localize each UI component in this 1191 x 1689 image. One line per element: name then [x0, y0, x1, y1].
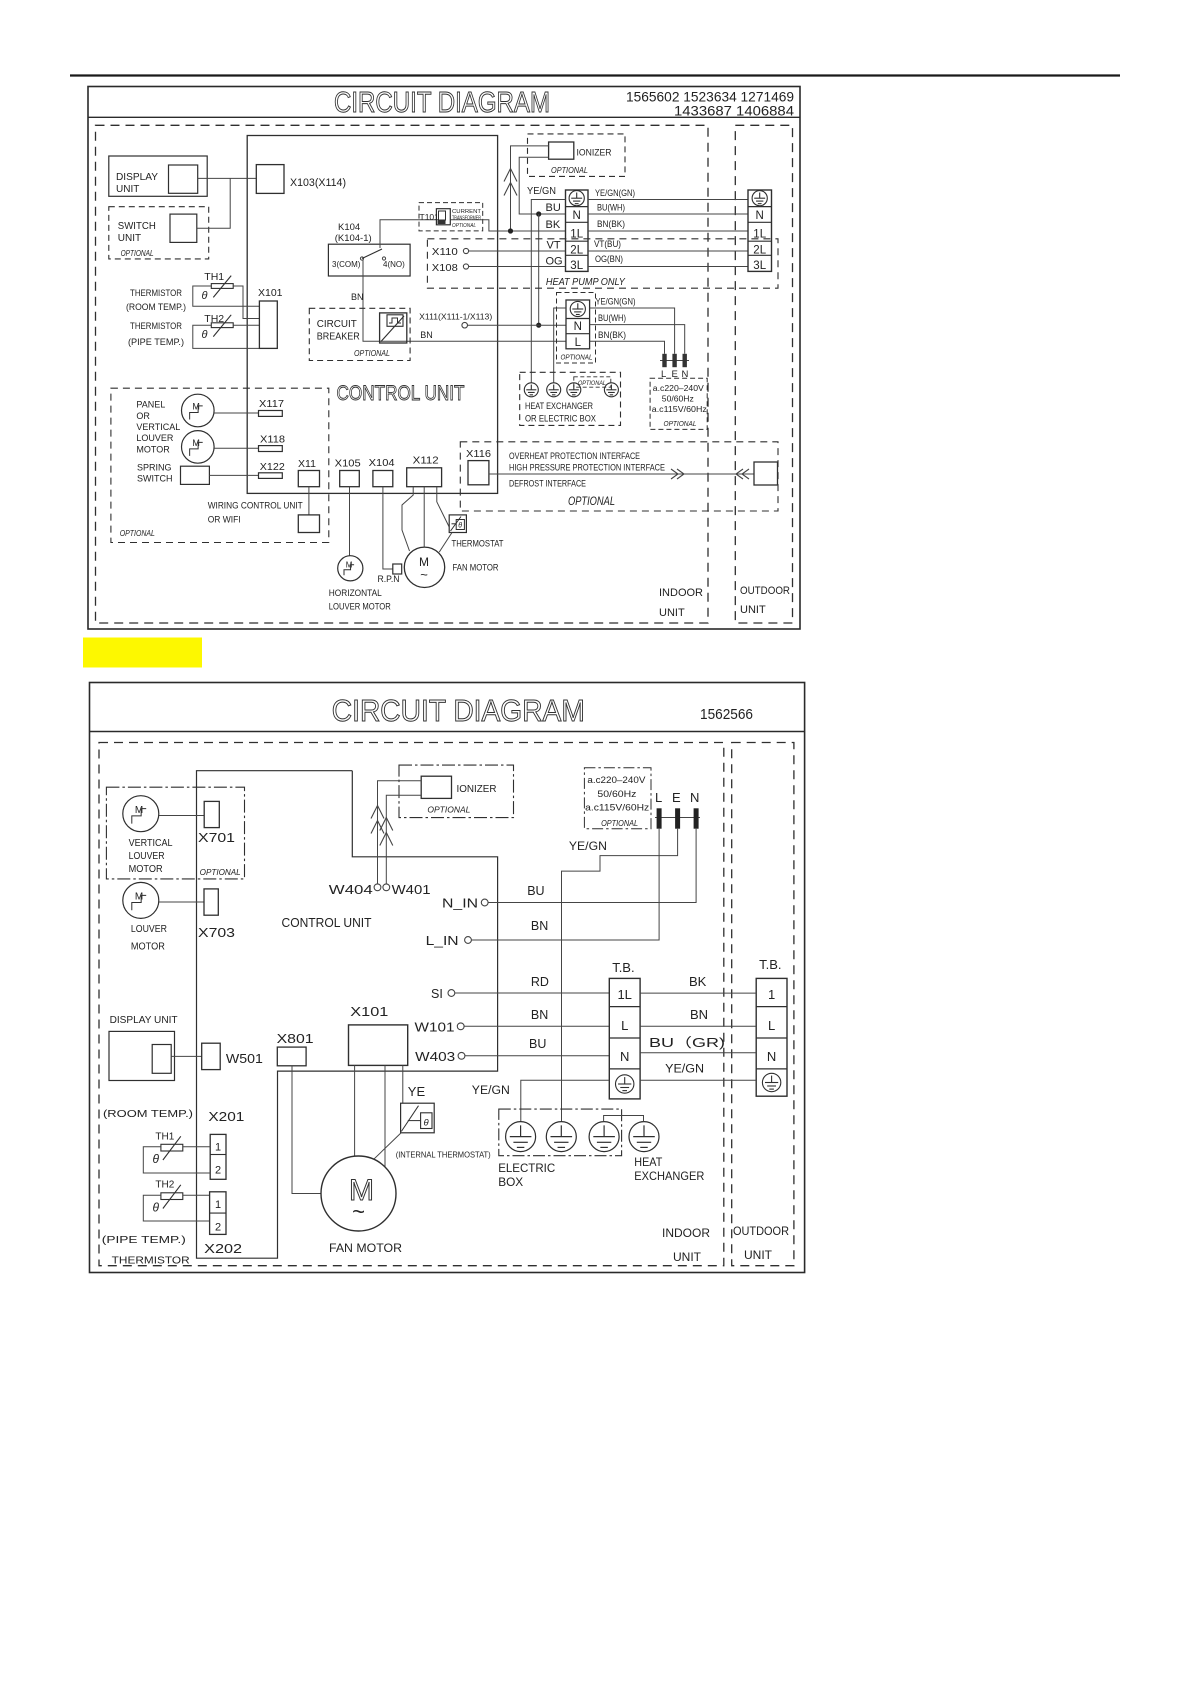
svg-text:CIRCUIT DIAGRAM: CIRCUIT DIAGRAM: [332, 694, 585, 728]
LEN cross line (d2): [655, 817, 700, 819]
svg-text:X104: X104: [369, 457, 395, 469]
R.P.N square: [393, 564, 402, 574]
fan motor circle (d2): [321, 1156, 396, 1231]
svg-text:HEAT PUMP ONLY: HEAT PUMP ONLY: [546, 277, 626, 288]
svg-text:1: 1: [768, 987, 775, 1002]
terminal L (d2): [657, 808, 662, 828]
TH2 loop wiring: [233, 324, 259, 326]
svg-text:OPTIONAL: OPTIONAL: [452, 223, 476, 229]
connector X116: [468, 461, 489, 485]
chevrons W401: [380, 818, 393, 831]
X108 terminal circle: [463, 264, 468, 269]
wire W401 to ionizer: [386, 795, 421, 884]
TH2 wiring (d2): [143, 1195, 209, 1221]
svg-text:K104: K104: [338, 222, 360, 233]
svg-text:BU（GR): BU（GR): [649, 1035, 725, 1050]
wire ionizer upper to BK net: [511, 146, 549, 231]
chevrons left (interface wire): [736, 469, 749, 479]
svg-text:SWITCH: SWITCH: [137, 473, 173, 483]
power supply dashed box (d1): [650, 378, 707, 429]
svg-text:IONIZER: IONIZER: [457, 783, 497, 795]
wire BK TB to TB: [640, 992, 756, 994]
wire X108 to 3L: [469, 266, 566, 268]
connector X112: [407, 468, 442, 487]
svg-text:2: 2: [215, 1165, 221, 1177]
svg-text:HORIZONTAL: HORIZONTAL: [329, 588, 382, 599]
svg-text:INDOOR: INDOOR: [662, 1226, 710, 1240]
connector X11: [298, 471, 319, 487]
svg-text:OG(BN): OG(BN): [595, 254, 623, 264]
wire BU(GR) TB to TB: [640, 1052, 756, 1054]
control unit outline (d2): [197, 771, 498, 1258]
svg-text:4(NO): 4(NO): [383, 260, 405, 269]
wire display to W501: [171, 1055, 202, 1057]
svg-text:BN(BK): BN(BK): [597, 219, 625, 229]
svg-text:YE: YE: [408, 1084, 426, 1099]
svg-text:OPTIONAL: OPTIONAL: [664, 419, 697, 428]
circuit breaker dashed box: [309, 308, 410, 360]
svg-text:OPTIONAL: OPTIONAL: [121, 249, 154, 258]
wire W404 to ionizer: [378, 781, 422, 884]
wire thermostat to fan motor (d2): [374, 1133, 401, 1159]
wire K104 pin3 to breaker net BN: [363, 260, 566, 341]
svg-text:BU: BU: [529, 1037, 546, 1051]
svg-text:CURRENT: CURRENT: [452, 209, 482, 215]
ground symbol g1 (d2): [506, 1122, 536, 1152]
wire SI to TB 1L: [455, 992, 610, 994]
wire BU tap down to X111 net: [538, 214, 540, 325]
terminal N (d1): [683, 354, 687, 367]
wire spring switch to X122: [209, 474, 258, 476]
junction dot BK/ionizer: [508, 228, 513, 233]
svg-text:MOTOR: MOTOR: [136, 444, 170, 454]
svg-text:OR ELECTRIC BOX: OR ELECTRIC BOX: [525, 414, 597, 425]
svg-text:N: N: [573, 210, 581, 222]
wire K104 to T101: [380, 220, 436, 248]
wire switch unit to X103 net: [197, 178, 230, 228]
indoor unit dashed boundary (d1): [96, 125, 709, 623]
svg-text:N: N: [574, 321, 582, 333]
wire OG(BN) indoor to outdoor: [588, 266, 748, 268]
svg-text:X101: X101: [350, 1004, 388, 1019]
svg-text:N: N: [756, 210, 764, 222]
svg-text:T.B.: T.B.: [612, 960, 634, 975]
wire motor1 to X117: [214, 412, 258, 414]
diagram 1 outer border: [88, 87, 800, 630]
svg-text:CIRCUIT: CIRCUIT: [317, 319, 357, 330]
svg-text:OR: OR: [136, 411, 150, 421]
outdoor unit dashed boundary (d2): [732, 743, 794, 1266]
svg-text:BREAKER: BREAKER: [317, 332, 360, 343]
TH1 wiring (d2): [143, 1147, 210, 1173]
svg-text:BU: BU: [546, 202, 561, 214]
spring switch box: [181, 466, 210, 484]
svg-text:VT: VT: [547, 240, 561, 252]
svg-text:L: L: [655, 790, 662, 805]
svg-text:YE/GN: YE/GN: [569, 839, 607, 853]
diagram 2 title separator: [90, 731, 805, 733]
svg-text:EXCHANGER: EXCHANGER: [634, 1169, 704, 1183]
svg-text:MOTOR: MOTOR: [131, 941, 165, 953]
panel motor 2: [182, 431, 215, 464]
connector W501: [202, 1043, 221, 1069]
horizontal louver motor: [338, 556, 363, 581]
svg-text:DEFROST INTERFACE: DEFROST INTERFACE: [509, 479, 586, 489]
connector X703: [204, 889, 218, 915]
wire L terminal to L_IN: [472, 829, 660, 940]
svg-text:OPTIONAL: OPTIONAL: [551, 166, 588, 175]
terminal E (d1): [672, 354, 676, 367]
connector X101 (d2): [349, 1025, 408, 1066]
svg-text:(ROOM TEMP.): (ROOM TEMP.): [103, 1108, 193, 1120]
svg-text:1565602 1523634 1271469: 1565602 1523634 1271469: [626, 90, 794, 105]
svg-text:M: M: [192, 402, 200, 412]
svg-text:UNIT: UNIT: [659, 607, 685, 619]
svg-text:X703: X703: [198, 926, 235, 940]
svg-text:OPTIONAL: OPTIONAL: [354, 349, 390, 358]
svg-text:X108: X108: [432, 262, 458, 274]
electric box dash-dot border: [499, 1109, 622, 1156]
svg-text:TH1: TH1: [204, 271, 224, 283]
diagram 2 outer border: [90, 683, 805, 1273]
svg-text:1: 1: [215, 1142, 221, 1154]
W101 terminal circle: [457, 1023, 464, 1030]
svg-text:THERMOSTAT: THERMOSTAT: [452, 539, 504, 550]
svg-text:CONTROL UNIT: CONTROL UNIT: [337, 382, 465, 405]
svg-text:W101: W101: [415, 1021, 455, 1035]
display unit connector (d2): [152, 1045, 171, 1074]
wire W403 to TB N: [465, 1055, 609, 1057]
svg-text:2: 2: [215, 1222, 221, 1234]
svg-text:FAN MOTOR: FAN MOTOR: [453, 563, 499, 574]
svg-text:MOTOR: MOTOR: [129, 863, 163, 875]
junction dot BU tap: [536, 211, 541, 216]
svg-text:INDOOR: INDOOR: [659, 587, 703, 599]
svg-text:N: N: [620, 1049, 629, 1064]
thermistor TH1 (d2): [161, 1136, 183, 1160]
K104 pin 3 contact: [360, 257, 363, 260]
svg-text:VERTICAL: VERTICAL: [136, 422, 180, 432]
outdoor terminal block T.B.: [756, 978, 787, 1096]
svg-text:θ: θ: [202, 290, 208, 302]
svg-text:IONIZER: IONIZER: [577, 148, 612, 159]
svg-text:W401: W401: [392, 883, 431, 897]
svg-text:a.c220–240V: a.c220–240V: [653, 384, 705, 393]
K104 pin 4 contact: [382, 257, 385, 260]
svg-text:T.B.: T.B.: [759, 957, 781, 972]
wire optional L to L terminal: [590, 341, 665, 354]
wire display unit to X103: [198, 177, 257, 179]
svg-text:UNIT: UNIT: [118, 233, 141, 244]
wire X11 to wifi connector: [308, 487, 310, 515]
svg-text:HEAT EXCHANGER: HEAT EXCHANGER: [525, 401, 593, 412]
svg-text:L_IN: L_IN: [426, 934, 459, 948]
svg-text:BOX: BOX: [498, 1175, 523, 1189]
wifi connector box: [298, 515, 319, 533]
wire X105 to horizontal louver motor: [349, 487, 351, 556]
W401 terminal circle: [383, 884, 390, 891]
switch unit connector: [170, 214, 197, 242]
chevrons W404: [371, 806, 384, 819]
panel motor 1: [182, 394, 215, 427]
ground symbol g3 (d1): [567, 383, 581, 397]
wire X116 to outdoor box: [489, 473, 754, 475]
svg-text:(K104-1): (K104-1): [335, 233, 372, 244]
power supply dash-dot box (d2): [584, 768, 651, 829]
terminal E (d2): [675, 808, 680, 828]
svg-text:N: N: [767, 1049, 776, 1064]
ground symbol g2 (d2): [546, 1122, 576, 1152]
ground symbol g1 (d1): [524, 383, 538, 397]
svg-text:3(COM): 3(COM): [332, 260, 361, 269]
svg-text:BK: BK: [689, 974, 707, 989]
svg-text:YE/GN(GN): YE/GN(GN): [596, 297, 636, 307]
wire X112 to thermostat: [437, 487, 449, 527]
svg-text:THERMISTOR: THERMISTOR: [112, 1255, 190, 1267]
svg-text:θ: θ: [202, 329, 208, 341]
wire X801 to fan motor: [292, 1066, 321, 1194]
svg-text:BN: BN: [351, 292, 364, 302]
svg-text:OPTIONAL: OPTIONAL: [200, 868, 241, 877]
outdoor interface box: [754, 462, 778, 485]
svg-text:X122: X122: [260, 461, 285, 473]
svg-text:X801: X801: [277, 1032, 314, 1046]
wire N terminal to N_IN: [488, 829, 696, 903]
svg-text:OG: OG: [546, 256, 563, 268]
X110 terminal circle: [463, 248, 468, 253]
panel optional dashed box: [111, 388, 329, 542]
interface dashed box (d1): [460, 442, 778, 511]
svg-text:X202: X202: [204, 1241, 242, 1256]
svg-text:X103(X114): X103(X114): [290, 177, 346, 189]
thermistor TH1: [211, 276, 233, 298]
connector X701: [204, 801, 219, 827]
control unit box (d1): [247, 136, 497, 494]
svg-text:X701: X701: [198, 831, 235, 845]
svg-text:UNIT: UNIT: [740, 604, 766, 616]
svg-text:1433687 1406884: 1433687 1406884: [674, 104, 795, 119]
switch unit dashed box: [109, 207, 209, 259]
svg-text:X111(X111-1/X113): X111(X111-1/X113): [419, 312, 492, 322]
earth terminal symbol (indoor strip d1): [569, 191, 584, 206]
svg-text:DISPLAY: DISPLAY: [116, 172, 158, 183]
svg-text:2L: 2L: [570, 245, 583, 257]
svg-text:BU(WH): BU(WH): [598, 313, 626, 323]
terminal L (d1): [662, 354, 666, 367]
svg-text:YE/GN: YE/GN: [665, 1064, 704, 1076]
svg-text:(ROOM TEMP.): (ROOM TEMP.): [126, 302, 186, 313]
svg-text:BN: BN: [690, 1007, 708, 1022]
svg-text:OUTDOOR: OUTDOOR: [733, 1224, 789, 1238]
svg-text:3L: 3L: [753, 260, 766, 272]
svg-text:θ: θ: [153, 1201, 160, 1215]
connector X122: [259, 473, 283, 479]
wire E terminal to ground g2 (d2): [562, 829, 678, 1122]
wire X112 to fan motor top: [423, 487, 425, 547]
svg-text:1562566: 1562566: [700, 706, 753, 723]
svg-text:BK: BK: [546, 219, 561, 231]
T101 component box: [436, 209, 450, 225]
svg-text:N_IN: N_IN: [442, 897, 478, 911]
X111 terminal circle: [462, 322, 468, 328]
arrow chevrons on ionizer wire: [504, 169, 517, 182]
svg-text:TH1: TH1: [155, 1132, 174, 1143]
heat pump only dashed box: [427, 239, 778, 288]
svg-text:BN(BK): BN(BK): [598, 330, 626, 340]
svg-text:L: L: [621, 1018, 628, 1033]
connector X104: [373, 471, 393, 487]
TH1 loop wiring: [193, 286, 260, 306]
optional N/L terminal strip: [566, 300, 590, 349]
earth symbol (indoor TB): [616, 1075, 634, 1093]
earth terminal symbol (outdoor strip d1): [752, 191, 767, 206]
fan motor circle (d1): [404, 547, 444, 587]
ionizer dash-dot box (d2): [399, 765, 514, 818]
wire X112 to fan motor left: [402, 487, 413, 551]
svg-text:2L: 2L: [753, 245, 766, 257]
svg-text:X117: X117: [259, 398, 284, 410]
svg-text:~: ~: [352, 1199, 365, 1224]
SI terminal circle: [448, 990, 455, 997]
svg-text:BN: BN: [420, 330, 433, 340]
svg-text:TRANSFORMER: TRANSFORMER: [452, 216, 481, 222]
svg-text:OPTIONAL: OPTIONAL: [120, 529, 155, 538]
terminal N (d2): [694, 808, 699, 828]
outdoor terminal strip (d1): [748, 190, 772, 271]
current transformer T101 dashed box: [419, 203, 483, 231]
display unit box: [109, 156, 207, 196]
svg-text:UNIT: UNIT: [116, 184, 139, 195]
wire optional earth left to g2: [554, 308, 566, 383]
wire T101 to 1L net: [450, 220, 565, 231]
LEN cross line (d1): [660, 360, 689, 362]
svg-text:W501: W501: [226, 1052, 263, 1066]
thermistor TH2 (d2): [161, 1185, 183, 1209]
earth symbol (outdoor TB): [762, 1073, 780, 1091]
svg-text:E: E: [672, 790, 681, 805]
indoor terminal block T.B.: [609, 978, 640, 1099]
svg-text:X110: X110: [432, 246, 458, 258]
wire X104 to RPN: [383, 487, 393, 569]
svg-text:N: N: [690, 790, 699, 805]
wire X101 pin2 to fan motor: [384, 1065, 386, 1167]
outdoor unit dashed boundary (d1): [735, 125, 792, 623]
page top rule: [70, 74, 1120, 76]
svg-text:CONTROL UNIT: CONTROL UNIT: [282, 916, 372, 930]
svg-text:OPTIONAL: OPTIONAL: [427, 805, 470, 815]
earth symbol (optional strip): [570, 301, 585, 316]
svg-text:θ: θ: [458, 523, 462, 530]
connector X101 (d1): [259, 301, 277, 348]
wire thermostat to fan motor: [439, 533, 452, 553]
svg-text:1: 1: [215, 1199, 221, 1211]
svg-text:BU: BU: [527, 884, 544, 898]
svg-text:W403: W403: [415, 1050, 455, 1064]
svg-text:OPTIONAL: OPTIONAL: [568, 496, 615, 508]
svg-text:LOUVER: LOUVER: [129, 850, 165, 862]
wire W101 to TB L: [464, 1025, 609, 1027]
optional strip dashed box (d1): [557, 293, 596, 364]
wire TB earth to ground g1 (d2): [521, 1080, 610, 1122]
wire X110 to 2L: [469, 250, 566, 252]
svg-text:OPTIONAL: OPTIONAL: [578, 380, 606, 387]
wire YE/GN(GN) indoor to outdoor: [588, 199, 748, 201]
svg-text:a.c220–240V: a.c220–240V: [587, 775, 645, 785]
svg-text:1L: 1L: [617, 987, 631, 1002]
svg-text:HIGH PRESSURE PROTECTION IN: HIGH PRESSURE PROTECTION INTERFACE: [509, 463, 665, 473]
svg-text:50/60Hz: 50/60Hz: [662, 395, 694, 404]
svg-text:VERTICAL: VERTICAL: [129, 837, 173, 849]
svg-text:DISPLAY UNIT: DISPLAY UNIT: [110, 1014, 179, 1026]
display unit connector: [169, 165, 198, 193]
L_IN terminal circle: [465, 937, 472, 944]
connector X103(X114): [256, 165, 284, 194]
svg-text:YE/GN: YE/GN: [527, 186, 556, 197]
svg-text:X11: X11: [298, 458, 316, 470]
bracket g3-g4: [604, 1116, 644, 1122]
K104 switch blade: [362, 249, 382, 259]
connector X801: [277, 1047, 306, 1066]
indoor unit dashed boundary (d2): [99, 743, 724, 1266]
svg-text:M: M: [192, 438, 200, 448]
connector X117: [259, 411, 283, 417]
wire X101 pin1 to fan motor: [354, 1065, 356, 1156]
svg-text:HEAT: HEAT: [634, 1155, 663, 1169]
W404 terminal circle: [374, 884, 381, 891]
svg-text:OUTDOOR: OUTDOOR: [740, 585, 790, 597]
svg-text:THERMISTOR: THERMISTOR: [130, 321, 182, 332]
svg-text:X116: X116: [466, 448, 491, 460]
svg-text:1L: 1L: [753, 229, 766, 241]
svg-text:LOUVER: LOUVER: [136, 433, 174, 443]
internal thermostat box: [401, 1103, 435, 1133]
vertical louver optional dash-dot box: [106, 787, 244, 879]
svg-text:M: M: [135, 805, 143, 816]
heat exchanger dashed box (d1): [520, 372, 621, 425]
svg-text:SWITCH: SWITCH: [118, 221, 156, 232]
wire YE/GN TB to TB: [640, 1079, 756, 1081]
svg-text:a.c115V/60Hz: a.c115V/60Hz: [585, 803, 650, 813]
svg-text:SI: SI: [431, 987, 443, 1001]
ground symbol g4 (d1): [604, 383, 618, 397]
svg-text:~: ~: [420, 567, 428, 582]
svg-text:ELECTRIC: ELECTRIC: [498, 1161, 555, 1175]
wire optional N to N terminal: [590, 325, 685, 354]
svg-text:UNIT: UNIT: [673, 1250, 702, 1264]
svg-text:θ: θ: [424, 1118, 430, 1129]
thermostat box (d1): [449, 515, 466, 533]
svg-text:WIRING CONTROL UNIT: WIRING CONTROL UNIT: [208, 501, 303, 512]
wire VT(BU) indoor to outdoor: [588, 250, 748, 252]
wire optional earth to E terminal: [590, 308, 675, 354]
svg-text:VT(BU): VT(BU): [594, 239, 621, 249]
svg-text:YE/GN(GN): YE/GN(GN): [595, 188, 635, 198]
ground symbol g3 (d2): [589, 1122, 619, 1152]
svg-text:TH2: TH2: [155, 1180, 174, 1191]
circuit breaker component: [380, 313, 407, 343]
svg-text:(PIPE TEMP.): (PIPE TEMP.): [102, 1234, 186, 1246]
wire ionizer lower to BU net: [519, 157, 565, 214]
svg-text:CIRCUIT DIAGRAM: CIRCUIT DIAGRAM: [334, 87, 550, 119]
connector X201: [210, 1134, 226, 1179]
ground symbol g4 (d2): [629, 1122, 659, 1152]
svg-text:PANEL: PANEL: [136, 400, 165, 410]
svg-text:YE/GN: YE/GN: [472, 1085, 510, 1097]
connector X202: [210, 1192, 226, 1235]
wire X101 pin3 to thermostat: [402, 1065, 404, 1103]
svg-text:BN: BN: [531, 919, 548, 933]
ground symbol g2 (d1): [547, 383, 561, 397]
